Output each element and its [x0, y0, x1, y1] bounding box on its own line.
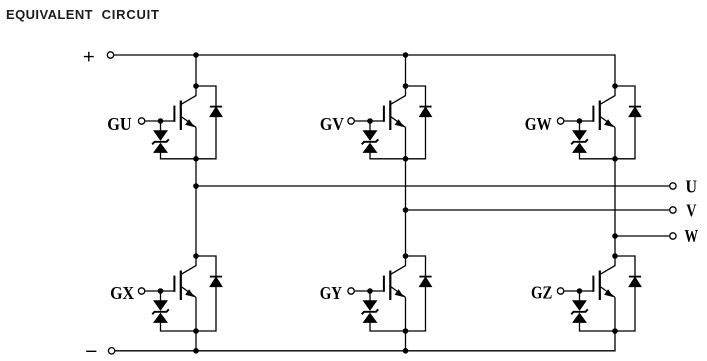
- svg-text:GY: GY: [320, 283, 342, 303]
- svg-text:W: W: [685, 226, 699, 246]
- svg-text:GZ: GZ: [531, 283, 552, 303]
- svg-text:GU: GU: [107, 114, 132, 134]
- svg-text:GX: GX: [110, 283, 134, 303]
- svg-text:U: U: [686, 177, 698, 197]
- svg-text:GW: GW: [525, 114, 552, 134]
- svg-text:GV: GV: [320, 114, 344, 134]
- svg-text:V: V: [686, 200, 696, 220]
